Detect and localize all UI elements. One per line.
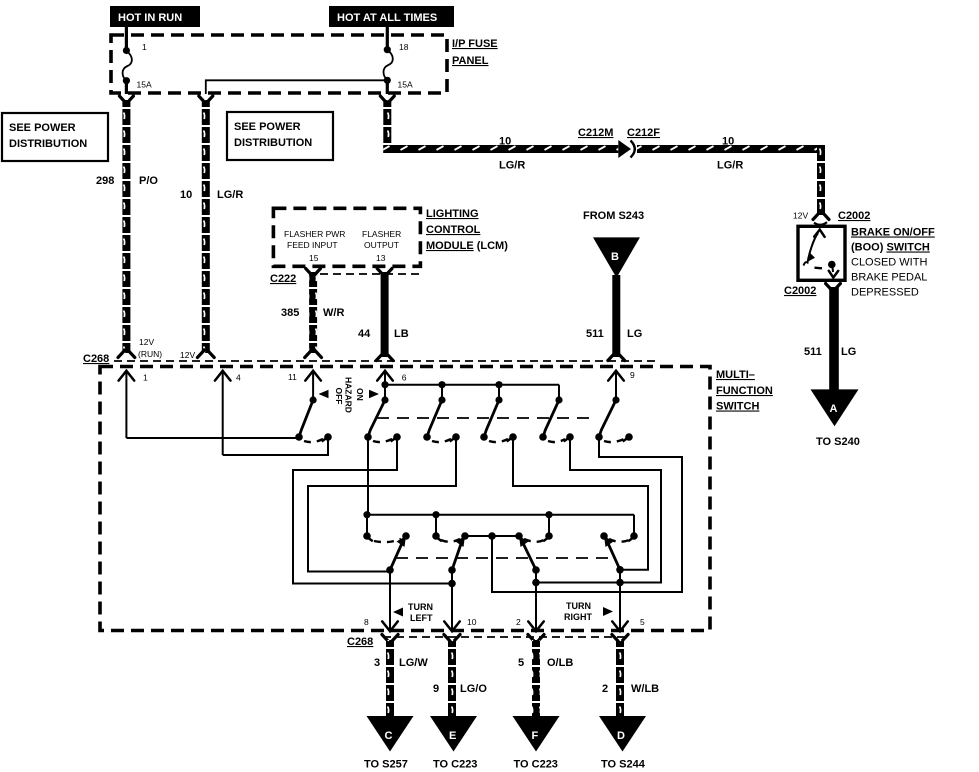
svg-text:BRAKE ON/OFF: BRAKE ON/OFF (851, 227, 935, 239)
svg-text:12V: 12V (139, 337, 154, 347)
svg-text:C212M: C212M (578, 127, 613, 139)
svg-text:511: 511 (586, 328, 604, 340)
svg-text:4: 4 (236, 373, 241, 383)
svg-text:12V: 12V (793, 211, 808, 221)
svg-text:1: 1 (143, 373, 148, 383)
svg-text:15A: 15A (398, 80, 413, 90)
svg-text:FLASHER PWR: FLASHER PWR (284, 229, 345, 239)
svg-text:298: 298 (96, 175, 114, 187)
svg-text:PANEL: PANEL (452, 55, 489, 67)
svg-text:C222: C222 (270, 273, 296, 285)
svg-text:W/LB: W/LB (631, 683, 659, 695)
svg-text:DEPRESSED: DEPRESSED (851, 287, 919, 299)
svg-text:9: 9 (433, 683, 439, 695)
svg-text:6: 6 (402, 373, 407, 383)
svg-text:3: 3 (374, 657, 380, 669)
svg-text:TURN: TURN (566, 601, 591, 611)
svg-text:TO C223: TO C223 (433, 759, 477, 771)
svg-text:10: 10 (467, 617, 477, 627)
svg-text:FEED INPUT: FEED INPUT (287, 240, 338, 250)
svg-text:5: 5 (640, 617, 645, 627)
svg-text:2: 2 (602, 683, 608, 695)
svg-text:D: D (617, 730, 625, 742)
svg-text:15A: 15A (137, 80, 152, 90)
svg-text:TO C223: TO C223 (514, 759, 558, 771)
svg-text:13: 13 (376, 253, 386, 263)
svg-text:LG/R: LG/R (717, 160, 743, 172)
svg-text:OFF: OFF (334, 388, 344, 405)
svg-text:18: 18 (399, 42, 409, 52)
svg-text:C2002: C2002 (838, 210, 870, 222)
svg-text:C268: C268 (347, 636, 373, 648)
svg-text:ON: ON (355, 388, 365, 401)
svg-text:C268: C268 (83, 353, 109, 365)
svg-text:HAZARD: HAZARD (344, 377, 354, 413)
svg-text:LG/W: LG/W (399, 657, 428, 669)
svg-text:FROM S243: FROM S243 (583, 210, 644, 222)
svg-text:LG/R: LG/R (217, 189, 243, 201)
svg-text:LG/R: LG/R (499, 160, 525, 172)
svg-text:TO S257: TO S257 (364, 759, 408, 771)
svg-text:11: 11 (288, 372, 297, 382)
svg-text:BRAKE PEDAL: BRAKE PEDAL (851, 272, 927, 284)
svg-text:SWITCH: SWITCH (716, 401, 759, 413)
svg-text:5: 5 (518, 657, 524, 669)
svg-text:E: E (449, 730, 456, 742)
svg-text:9: 9 (630, 370, 635, 380)
svg-text:10: 10 (180, 189, 192, 201)
svg-text:C2002: C2002 (784, 285, 816, 297)
svg-text:F: F (532, 730, 539, 742)
svg-text:(RUN): (RUN) (138, 349, 162, 359)
svg-text:HOT IN RUN: HOT IN RUN (118, 12, 182, 24)
svg-text:LG: LG (841, 346, 856, 358)
svg-text:LIGHTING: LIGHTING (426, 208, 479, 220)
svg-text:TO S244: TO S244 (601, 759, 646, 771)
svg-text:C: C (385, 730, 393, 742)
svg-text:FLASHER: FLASHER (362, 229, 401, 239)
svg-text:FUNCTION: FUNCTION (716, 385, 773, 397)
svg-text:CLOSED WITH: CLOSED WITH (851, 257, 927, 269)
svg-text:385: 385 (281, 307, 299, 319)
svg-text:LB: LB (394, 328, 409, 340)
svg-text:B: B (611, 251, 619, 263)
svg-text:SEE POWER: SEE POWER (9, 122, 76, 134)
svg-text:C212F: C212F (627, 127, 660, 139)
svg-text:10: 10 (722, 136, 734, 148)
svg-text:MODULE (LCM): MODULE (LCM) (426, 240, 508, 252)
svg-text:DISTRIBUTION: DISTRIBUTION (9, 138, 87, 150)
svg-text:P/O: P/O (139, 175, 158, 187)
svg-text:TURN: TURN (408, 602, 433, 612)
svg-text:(BOO) SWITCH: (BOO) SWITCH (851, 242, 930, 254)
svg-text:O/LB: O/LB (547, 657, 573, 669)
svg-text:I/P FUSE: I/P FUSE (452, 38, 498, 50)
svg-text:LEFT: LEFT (410, 613, 433, 623)
svg-text:10: 10 (499, 136, 511, 148)
svg-text:HOT AT ALL TIMES: HOT AT ALL TIMES (337, 12, 437, 24)
svg-text:2: 2 (516, 617, 521, 627)
svg-text:CONTROL: CONTROL (426, 224, 481, 236)
svg-text:RIGHT: RIGHT (564, 612, 593, 622)
svg-text:LG/O: LG/O (460, 683, 487, 695)
svg-text:OUTPUT: OUTPUT (364, 240, 399, 250)
svg-text:12V: 12V (180, 350, 195, 360)
svg-text:1: 1 (142, 42, 147, 52)
svg-text:TO S240: TO S240 (816, 436, 860, 448)
svg-text:511: 511 (804, 346, 822, 358)
svg-text:A: A (830, 403, 838, 415)
svg-text:8: 8 (364, 617, 369, 627)
svg-text:DISTRIBUTION: DISTRIBUTION (234, 137, 312, 149)
svg-text:LG: LG (627, 328, 642, 340)
svg-text:W/R: W/R (323, 307, 344, 319)
svg-text:MULTI–: MULTI– (716, 369, 755, 381)
svg-text:15: 15 (309, 253, 319, 263)
svg-text:44: 44 (358, 328, 371, 340)
svg-text:SEE POWER: SEE POWER (234, 121, 301, 133)
